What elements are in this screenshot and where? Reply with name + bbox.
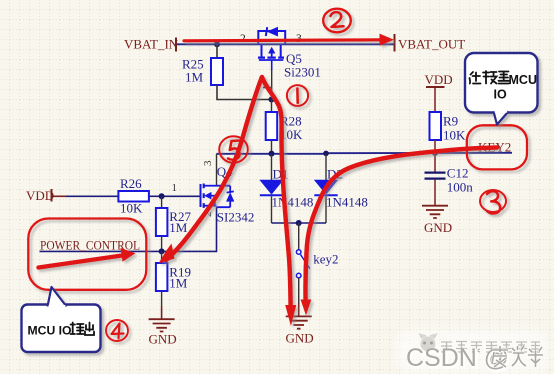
wire mid KEY2 rail (217, 153, 513, 154)
annotation circled 2 (323, 9, 351, 33)
svg-text:1M: 1M (185, 70, 204, 85)
diode D1 lead bottom (271, 196, 273, 223)
switch key2 (296, 250, 301, 255)
wire POWER_CONTROL net (40, 250, 162, 252)
resistor R25 (211, 58, 223, 85)
watermark small text (441, 342, 540, 353)
svg-text:VBAT_IN: VBAT_IN (124, 37, 179, 52)
svg-text:VBAT_OUT: VBAT_OUT (398, 37, 465, 52)
transistor Q4 channel dashes (203, 184, 205, 208)
wire key2 to GND (298, 278, 300, 303)
annotation circled 1 (287, 85, 308, 106)
annotation circled 3 (480, 190, 506, 212)
wire R26 to gate node (149, 195, 162, 197)
junction mid-R28 (269, 151, 275, 157)
wire R27 top lead (161, 196, 163, 208)
transistor Q4 body diode (229, 186, 231, 208)
svg-text:1M: 1M (169, 220, 188, 235)
transistor Q5 gate bar (259, 59, 283, 61)
svg-text:R9: R9 (443, 114, 458, 129)
ground GND left (149, 319, 175, 331)
wire Q4 drain lead (216, 154, 218, 186)
annotation arrow top VBAT_IN to VBAT_OUT (184, 40, 381, 41)
callout box MCU-IO-output (22, 287, 101, 352)
svg-text:1N4148: 1N4148 (326, 195, 368, 210)
wire R19 to GND (161, 291, 163, 306)
diode D2 (314, 180, 337, 194)
junction top-R25 (214, 41, 220, 47)
wire D1-D2 bottom rail (272, 222, 327, 224)
watermark name glyphs (492, 346, 543, 367)
svg-text:IO: IO (494, 88, 507, 102)
svg-text:VDD: VDD (26, 188, 54, 203)
wire Q5 gate lead (271, 60, 273, 70)
diode D1 lead top (271, 154, 273, 180)
annotation arrow to power control wire (39, 256, 123, 268)
annotation curve 3 KEY2 to GND (305, 148, 497, 301)
capacitor C12 (425, 172, 446, 174)
CALLOUTS (22, 53, 538, 352)
annotation curve 1 down to GND (262, 77, 291, 305)
junction mid-D2 (323, 151, 329, 157)
wire R28 bottom lead (271, 140, 273, 153)
junction gate node (269, 97, 275, 103)
svg-text:1N4148: 1N4148 (272, 195, 314, 210)
node VBAT_IN port (175, 38, 177, 52)
wire VDD to R26 (66, 195, 118, 197)
svg-text:MCU IO: MCU IO (28, 324, 72, 338)
junction R26-R27-gate (159, 193, 165, 199)
wire R19 top lead (161, 251, 163, 263)
svg-text:key2: key2 (313, 252, 338, 267)
svg-text:1M: 1M (169, 276, 188, 291)
callout text connect-to-MCU IO (470, 71, 510, 84)
wire Q4 source lead down-left (162, 207, 217, 251)
junction key2 node (296, 220, 302, 226)
svg-text:R26: R26 (120, 176, 142, 191)
resistor R27 (156, 208, 168, 236)
node VBAT_OUT port (394, 34, 396, 52)
watermark wash (396, 330, 548, 372)
wire key2 stem (298, 223, 300, 250)
wire C12 top lead (434, 153, 436, 172)
annotation curve 5 arrow to R19 (166, 78, 262, 260)
resistor R28 (266, 112, 278, 140)
annotation start tick (263, 87, 272, 89)
resistor R26 (118, 191, 148, 202)
transistor Q4 source stub (204, 205, 217, 207)
callout box connect-to-MCU-IO (465, 53, 538, 125)
transistor Q4 drain stub (204, 185, 217, 187)
svg-text:3: 3 (202, 160, 214, 166)
diode D1 (260, 180, 283, 194)
diode D2 lead top (325, 153, 327, 180)
wire Q4 gate wire (162, 195, 201, 197)
resistor R19 (156, 263, 168, 291)
annotation circled 4 (106, 320, 128, 341)
svg-text:VDD: VDD (425, 72, 453, 87)
wire R25 bottom to gate node (217, 85, 272, 100)
wire R28 top lead (271, 100, 273, 113)
transistor Q5 channel and arrow (262, 44, 281, 56)
annotation box POWER_CONTROL (28, 219, 146, 290)
diode D2 lead bottom (325, 196, 327, 223)
svg-text:Si2301: Si2301 (284, 65, 321, 80)
svg-text:MCU: MCU (509, 73, 537, 87)
junction mid-R9 (432, 150, 438, 156)
WATERMARK (396, 330, 548, 374)
svg-text:GND: GND (286, 331, 314, 346)
svg-text:10K: 10K (443, 128, 466, 143)
svg-text:GND: GND (424, 220, 452, 235)
junction R27-R19 (159, 248, 165, 254)
wire R9 bottom lead (434, 140, 436, 153)
svg-text:100n: 100n (447, 180, 474, 195)
wire C12 bottom lead (434, 180, 436, 206)
svg-text:SI2342: SI2342 (217, 210, 255, 225)
transistor Q4 gate plate (200, 184, 202, 207)
annotation box KEY2 (467, 125, 527, 169)
transistor Q5 body diode (268, 28, 278, 36)
svg-text:GND: GND (149, 332, 177, 347)
annotation circled 5 (219, 136, 248, 162)
svg-text:10K: 10K (120, 201, 143, 216)
power port VDD left (51, 189, 53, 202)
ground GND middle (286, 316, 312, 328)
transistor Q4 bulk arrow (210, 195, 215, 197)
svg-text:1: 1 (172, 182, 178, 194)
svg-text:C12: C12 (447, 166, 469, 181)
wire top VBAT rail (176, 43, 395, 45)
transistor Q5 body diode loop (258, 31, 285, 44)
wire R25 top lead (216, 44, 218, 58)
wire R27 bottom lead (161, 236, 163, 251)
ground GND right (422, 206, 448, 218)
resistor R9 (430, 112, 442, 140)
watermark logo (420, 335, 436, 352)
